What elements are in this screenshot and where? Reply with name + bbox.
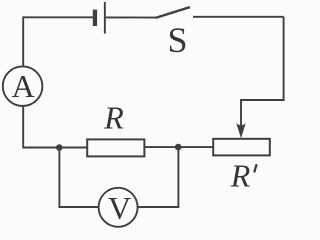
wire junction B to rheostat (178, 146, 213, 148)
rheostat R' body (213, 139, 270, 156)
svg-text:R: R (230, 157, 251, 193)
wire resistor to junction B (144, 146, 178, 148)
wire voltmeter branch right: right then up to node B (138, 148, 179, 207)
battery cell: long thin positive plate (104, 2, 106, 34)
resistor R body (87, 139, 144, 156)
svg-text:V: V (108, 190, 131, 226)
wire top-left horizontal from left corner to battery (23, 17, 93, 66)
voltmeter V1 circle (99, 188, 138, 227)
svg-text:S: S (167, 20, 187, 60)
wire battery to switch left contact (106, 16, 156, 18)
wire right side: down, step left, down to wiper (241, 17, 284, 128)
wire switch right contact to top-right corner (193, 16, 284, 18)
switch S lever (open blade) (156, 7, 190, 18)
ammeter A1 circle (3, 66, 43, 106)
wire ammeter bottom to bottom-left corner (23, 106, 87, 148)
node B junction dot (175, 144, 182, 151)
wire voltmeter branch left: down from node A then right (59, 149, 98, 207)
svg-text:R: R (103, 99, 124, 135)
svg-text:A: A (12, 68, 35, 104)
node A junction dot (56, 144, 63, 151)
battery cell: short thick negative plate (93, 10, 97, 26)
rheostat wiper arrowhead (236, 123, 245, 138)
